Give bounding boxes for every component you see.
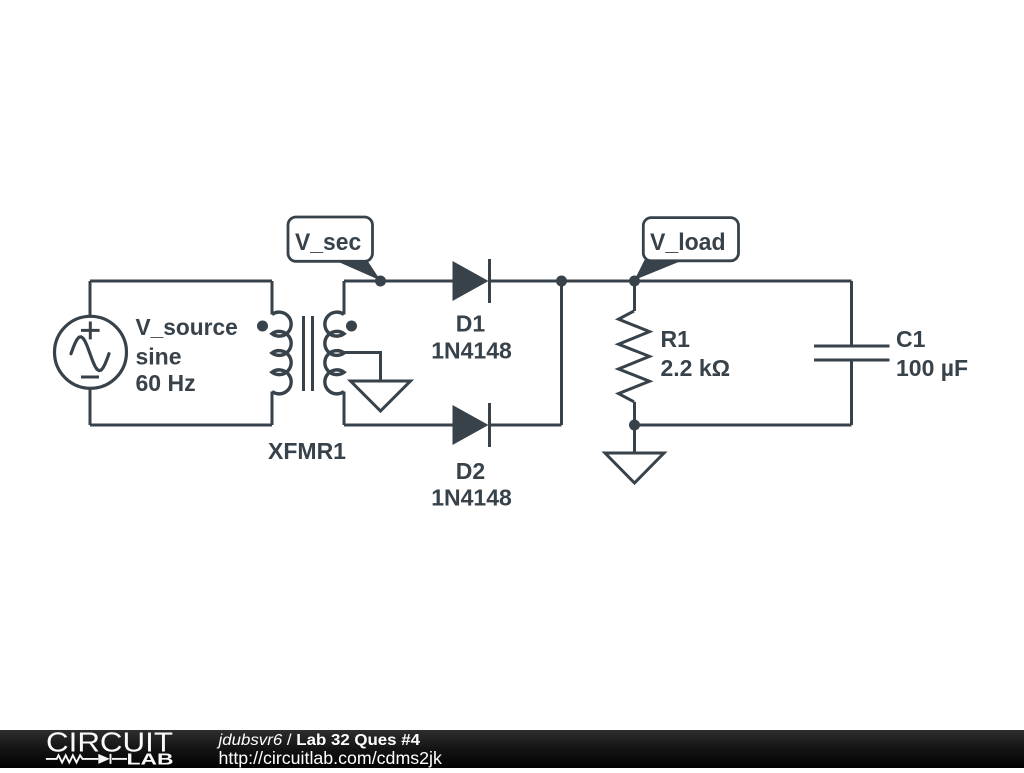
footer logo diode triangle	[98, 754, 110, 764]
wire: C1 top lead	[850, 281, 853, 346]
callout box V_load	[643, 218, 738, 261]
transformer phase dot primary	[257, 321, 268, 332]
svg-text:jdubsvr6 / Lab 32 Ques #4: jdubsvr6 / Lab 32 Ques #4	[216, 732, 420, 749]
wire: D1 to junction node	[490, 280, 562, 283]
wire: R1 ground stem	[633, 425, 636, 453]
svg-text:V_sec: V_sec	[295, 229, 361, 256]
wire: primary loop top	[90, 280, 272, 283]
capacitor C1 plates	[814, 346, 890, 360]
svg-text:1N4148: 1N4148	[431, 484, 512, 510]
svg-text:C1: C1	[896, 326, 926, 352]
svg-text:D2: D2	[456, 458, 485, 484]
node V_sec dot	[375, 276, 386, 287]
ground: transformer tap	[351, 381, 411, 411]
wire: V_load node to C1 corner	[635, 280, 852, 283]
svg-text:D1: D1	[456, 311, 486, 337]
wire: secondary center tap	[344, 353, 381, 382]
ground: under R1	[605, 453, 664, 483]
wire: junction to V_load node	[562, 280, 635, 283]
footer logo doodle resistor and diode	[46, 754, 127, 764]
svg-text:sine: sine	[136, 343, 182, 369]
wire: secondary terminal top	[343, 281, 346, 315]
svg-text:R1: R1	[661, 326, 691, 352]
wire: secondary bottom to D2	[344, 424, 453, 427]
wire: primary terminal bottom	[271, 392, 274, 426]
label D2	[431, 458, 512, 511]
diode D1	[453, 259, 492, 303]
node V_load dot	[629, 276, 640, 287]
transformer phase dot secondary	[346, 321, 357, 332]
callout tail V_load	[635, 260, 684, 280]
wire: primary terminal top	[271, 281, 274, 315]
svg-text:LAB: LAB	[127, 752, 174, 768]
wire: primary loop left	[89, 281, 92, 317]
wire: secondary top to V_sec node	[344, 280, 381, 283]
voltage source V_source	[55, 316, 127, 388]
wire: primary loop bottom	[90, 424, 272, 427]
label R1	[661, 326, 731, 381]
transformer XFMR1 primary coil	[272, 312, 291, 394]
label D1	[431, 311, 512, 364]
callout tail V_sec	[334, 260, 381, 281]
node junction dot	[556, 276, 567, 287]
transformer XFMR1 core	[304, 316, 313, 391]
wire: D2 output rising to junction	[560, 281, 563, 425]
wire: C1 bottom lead	[850, 360, 853, 425]
label V_source	[136, 314, 238, 396]
svg-text:V_source: V_source	[136, 314, 238, 340]
wire: V_sec node to D1	[381, 280, 453, 283]
footer bar	[0, 730, 1024, 768]
resistor R1	[619, 281, 650, 425]
svg-text:V_load: V_load	[650, 229, 726, 256]
wire: D2 to right corner	[490, 424, 562, 427]
wire: primary loop left lower	[89, 389, 92, 426]
svg-text:XFMR1: XFMR1	[268, 438, 346, 464]
wire: secondary terminal bottom	[343, 392, 346, 426]
callout box V_sec	[288, 217, 373, 261]
svg-text:60 Hz: 60 Hz	[136, 370, 196, 396]
wire: R1 bottom to C1 bottom corner	[635, 424, 852, 427]
diode D2	[453, 403, 492, 447]
svg-text:2.2 kΩ: 2.2 kΩ	[661, 355, 731, 381]
svg-text:100 µF: 100 µF	[896, 355, 968, 381]
node R1 bottom dot	[629, 420, 640, 431]
transformer XFMR1 secondary coil	[325, 312, 344, 394]
svg-text:1N4148: 1N4148	[431, 338, 512, 364]
label C1	[896, 326, 968, 381]
svg-text:http://circuitlab.com/cdms2jk: http://circuitlab.com/cdms2jk	[219, 748, 443, 768]
